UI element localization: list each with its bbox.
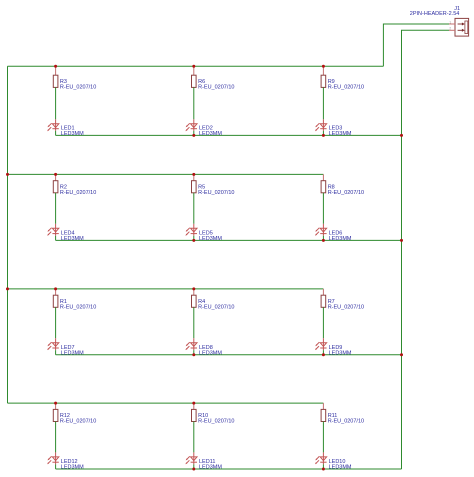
junction return row3 col2	[192, 353, 195, 356]
svg-text:R-EU_0207/10: R-EU_0207/10	[60, 304, 96, 310]
connector J1	[455, 18, 469, 36]
wire R11 to LED10	[322, 422, 324, 453]
wire J1 pin2 right rail	[402, 30, 450, 469]
junction bus row2 col2	[192, 173, 195, 176]
junction return row4 col2	[192, 468, 195, 471]
resistor R8	[321, 174, 326, 192]
wire R3 to LED1	[55, 87, 57, 119]
svg-text:LED3MM: LED3MM	[329, 236, 352, 242]
wire bus row4	[8, 402, 324, 404]
svg-text:R-EU_0207/10: R-EU_0207/10	[60, 419, 96, 425]
wire return row1	[56, 134, 402, 136]
svg-text:LED3MM: LED3MM	[61, 131, 84, 137]
wire return row4	[56, 468, 402, 470]
wire LED2 to return	[193, 131, 195, 136]
resistor R1	[53, 289, 58, 307]
wire R1 to LED7	[55, 307, 57, 338]
wire LED4 to return	[55, 236, 57, 241]
resistor R6	[192, 66, 197, 87]
svg-text:1: 1	[449, 20, 451, 24]
wire LED8 to return	[193, 350, 195, 355]
junction return row1 right rail	[400, 134, 403, 137]
junction return row3 right rail	[400, 353, 403, 356]
resistor R9	[321, 66, 326, 87]
LED LED3	[315, 119, 327, 131]
svg-text:LED3MM: LED3MM	[61, 236, 84, 242]
svg-text:R-EU_0207/10: R-EU_0207/10	[198, 419, 234, 425]
wire LED9 to return	[322, 350, 324, 355]
junction bus row4 col1	[54, 402, 57, 405]
resistor R4	[192, 289, 197, 307]
junction bus row4 col2	[192, 402, 195, 405]
wire top bus row1	[8, 65, 384, 67]
resistor R12	[53, 403, 58, 421]
wire J1 pin1 to top bus	[383, 24, 449, 66]
LED LED2	[185, 119, 197, 131]
wire R9 to LED3	[322, 87, 324, 119]
LED LED12	[47, 452, 59, 464]
LED LED5	[185, 224, 197, 236]
junction return row1 col2	[192, 134, 195, 137]
LED LED7	[47, 338, 59, 350]
junction bus row3 col1	[54, 287, 57, 290]
wire bus row2	[8, 173, 324, 175]
junction return row2 right rail	[400, 239, 403, 242]
svg-text:LED3MM: LED3MM	[329, 131, 352, 137]
junction top bus col3	[322, 65, 325, 68]
wire R6 to LED2	[193, 87, 195, 119]
wire LED7 to return	[55, 350, 57, 355]
LED LED11	[185, 452, 197, 464]
wire R8 to LED6	[322, 193, 324, 224]
LED LED6	[315, 224, 327, 236]
junction bus row3 col2	[192, 287, 195, 290]
LED LED9	[315, 338, 327, 350]
wire R10 to LED11	[193, 422, 195, 453]
junction top bus col2	[192, 65, 195, 68]
wire return row3	[56, 354, 402, 356]
svg-text:LED3MM: LED3MM	[199, 350, 222, 356]
LED LED4	[47, 224, 59, 236]
svg-text:2PIN-HEADER-2.54: 2PIN-HEADER-2.54	[410, 11, 460, 17]
svg-text:R-EU_0207/10: R-EU_0207/10	[198, 84, 234, 90]
resistor R10	[192, 403, 197, 421]
resistor R7	[321, 289, 326, 307]
svg-text:LED3MM: LED3MM	[329, 465, 352, 471]
junction top bus col1	[54, 65, 57, 68]
wire bus row3	[8, 288, 324, 290]
junction return row1 col3	[322, 134, 325, 137]
wire LED11 to return	[193, 464, 195, 469]
svg-text:R-EU_0207/10: R-EU_0207/10	[198, 304, 234, 310]
LED LED10	[315, 452, 327, 464]
svg-text:R-EU_0207/10: R-EU_0207/10	[328, 190, 364, 196]
wire left rail	[7, 66, 9, 403]
junction return row4 col3	[322, 468, 325, 471]
wire LED1 to return	[55, 131, 57, 136]
wire LED6 to return	[322, 236, 324, 241]
svg-text:LED3MM: LED3MM	[329, 350, 352, 356]
wire R12 to LED12	[55, 422, 57, 453]
svg-text:R-EU_0207/10: R-EU_0207/10	[328, 419, 364, 425]
svg-text:R-EU_0207/10: R-EU_0207/10	[60, 84, 96, 90]
wire LED3 to return	[322, 131, 324, 136]
LED LED8	[185, 338, 197, 350]
resistor R11	[321, 403, 326, 421]
svg-text:LED3MM: LED3MM	[61, 350, 84, 356]
svg-text:R-EU_0207/10: R-EU_0207/10	[328, 304, 364, 310]
svg-text:LED3MM: LED3MM	[199, 236, 222, 242]
resistor R3	[53, 66, 58, 87]
wire return row2	[56, 239, 402, 241]
resistor R2	[53, 174, 58, 192]
junction bus row2 col1	[54, 173, 57, 176]
pin 2 of J1	[449, 29, 465, 32]
junction left rail row3	[6, 287, 9, 290]
svg-text:LED3MM: LED3MM	[199, 465, 222, 471]
svg-text:R-EU_0207/10: R-EU_0207/10	[198, 190, 234, 196]
wire R5 to LED5	[193, 193, 195, 224]
junction return row3 col3	[322, 353, 325, 356]
svg-text:R-EU_0207/10: R-EU_0207/10	[328, 84, 364, 90]
svg-text:R-EU_0207/10: R-EU_0207/10	[60, 190, 96, 196]
wire LED5 to return	[193, 236, 195, 241]
pin 1 of J1	[449, 23, 465, 26]
wire R7 to LED9	[322, 307, 324, 338]
LED LED1	[47, 119, 59, 131]
svg-text:LED3MM: LED3MM	[199, 131, 222, 137]
junction return row2 col3	[322, 239, 325, 242]
svg-text:LED3MM: LED3MM	[61, 465, 84, 471]
resistor R5	[192, 174, 197, 192]
svg-text:2: 2	[449, 27, 451, 31]
wire R2 to LED4	[55, 193, 57, 224]
wire LED12 to return	[55, 464, 57, 469]
wire LED10 to return	[322, 464, 324, 469]
wire R4 to LED8	[193, 307, 195, 338]
junction return row2 col2	[192, 239, 195, 242]
junction left rail row2	[6, 173, 9, 176]
